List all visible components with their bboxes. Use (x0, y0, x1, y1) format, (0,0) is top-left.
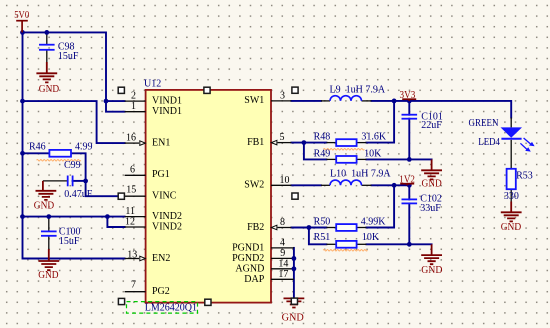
svg-text:LED4: LED4 (478, 137, 500, 148)
svg-text:L10 1uH 7.9A: L10 1uH 7.9A (330, 168, 391, 179)
svg-text:1: 1 (131, 101, 136, 112)
svg-text:GND: GND (39, 84, 60, 95)
svg-text:7: 7 (131, 279, 136, 290)
svg-text:PG2: PG2 (152, 286, 170, 297)
svg-text:U12: U12 (144, 79, 161, 90)
svg-text:VINC: VINC (152, 191, 177, 202)
svg-text:FB2: FB2 (247, 222, 264, 233)
svg-text:5V0: 5V0 (14, 10, 29, 21)
svg-text:1V2: 1V2 (399, 175, 415, 186)
svg-text:330: 330 (504, 191, 519, 202)
svg-text:4.99: 4.99 (75, 141, 93, 152)
svg-text:3: 3 (280, 90, 285, 101)
svg-text:EN1: EN1 (152, 138, 170, 149)
svg-text:8: 8 (280, 217, 285, 228)
svg-text:14: 14 (278, 259, 288, 270)
svg-text:13: 13 (127, 250, 137, 261)
svg-text:GND: GND (421, 265, 443, 276)
svg-text:VIND2: VIND2 (152, 222, 182, 233)
svg-text:EN2: EN2 (152, 253, 170, 264)
svg-text:PGND1: PGND1 (232, 242, 264, 253)
svg-text:DAP: DAP (244, 274, 264, 285)
svg-text:AGND: AGND (235, 263, 264, 274)
svg-text:0.47uF: 0.47uF (64, 189, 93, 200)
svg-text:2: 2 (131, 91, 136, 102)
svg-text:GND: GND (422, 178, 443, 189)
svg-text:15uF: 15uF (58, 51, 79, 62)
svg-text:17: 17 (278, 269, 288, 280)
svg-text:GND: GND (501, 222, 522, 233)
svg-text:R48: R48 (314, 131, 331, 142)
svg-text:4: 4 (280, 238, 285, 249)
svg-text:31.6K: 31.6K (361, 131, 387, 142)
svg-text:9: 9 (280, 248, 285, 259)
svg-text:15uF: 15uF (59, 236, 80, 247)
svg-text:10K: 10K (362, 232, 380, 243)
svg-text:10: 10 (280, 175, 290, 186)
svg-text:FB1: FB1 (247, 137, 264, 148)
svg-text:12: 12 (125, 217, 135, 228)
svg-text:R49: R49 (314, 148, 331, 159)
svg-text:GND: GND (38, 270, 59, 281)
svg-text:3V3: 3V3 (400, 90, 416, 101)
svg-text:R50: R50 (314, 216, 331, 227)
svg-text:SW1: SW1 (244, 95, 264, 106)
svg-text:VIND1: VIND1 (152, 95, 182, 106)
svg-text:16: 16 (126, 133, 136, 144)
svg-text:L9 1uH 7.9A: L9 1uH 7.9A (330, 84, 386, 95)
svg-text:SW2: SW2 (244, 180, 264, 191)
svg-text:22uF: 22uF (421, 120, 442, 131)
svg-text:C99: C99 (64, 160, 81, 171)
svg-text:6: 6 (130, 164, 135, 175)
svg-text:11: 11 (125, 206, 135, 217)
svg-text:VIND2: VIND2 (152, 211, 182, 222)
svg-text:4.99K: 4.99K (361, 216, 387, 227)
svg-text:5: 5 (280, 132, 285, 143)
svg-text:PGND2: PGND2 (232, 253, 264, 264)
svg-text:GREEN: GREEN (469, 118, 499, 129)
svg-text:LM26420Q1: LM26420Q1 (145, 303, 197, 314)
svg-text:GND: GND (282, 313, 305, 324)
svg-text:10K: 10K (364, 148, 382, 159)
svg-text:15: 15 (126, 185, 136, 196)
svg-text:33uF: 33uF (420, 203, 441, 214)
svg-text:R51: R51 (314, 232, 331, 243)
svg-text:GND: GND (34, 201, 55, 212)
svg-text:R46: R46 (29, 141, 46, 152)
svg-text:VIND1: VIND1 (152, 106, 182, 117)
svg-text:PG1: PG1 (152, 169, 170, 180)
svg-text:R53: R53 (516, 170, 533, 181)
